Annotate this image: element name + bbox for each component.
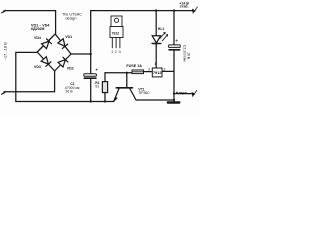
chassis ground bar — [168, 101, 180, 103]
resistor R1 — [102, 73, 107, 103]
emitter with arrow — [114, 89, 119, 102]
wire bridge minus: L vertex left then down — [16, 52, 37, 101]
wire base line from R1 top to regulator — [105, 72, 132, 74]
wire top plus rail — [91, 10, 194, 12]
fuse FU1 — [132, 70, 144, 74]
LED light arrows — [160, 32, 168, 40]
label The UTSAC design — [62, 12, 82, 20]
svg-text:VD4: VD4 — [34, 36, 41, 40]
svg-text:2: 2 — [148, 68, 150, 72]
wire plus riser x=90.8 up to top rail — [90, 11, 92, 54]
svg-text:VD1: VD1 — [65, 35, 72, 39]
capacitor C1 — [84, 54, 97, 103]
svg-text:VD2: VD2 — [67, 66, 74, 70]
wire bridge edge B-R — [55, 54, 71, 71]
svg-text:51: 51 — [95, 84, 99, 88]
svg-text:стаб.: стаб. — [180, 5, 189, 9]
svg-text:3: 3 — [119, 50, 121, 54]
terminal arrow +14V (top right) — [192, 7, 197, 13]
svg-text:design: design — [66, 16, 77, 20]
diode VD3 (on L-B edge, pointing to B) — [41, 57, 51, 67]
label korp — [176, 92, 178, 94]
wire bridge plus: R vertex to C1 node — [71, 53, 91, 55]
svg-text:2: 2 — [115, 50, 117, 54]
diode VD1 (on T-R edge, pointing to R) — [58, 39, 68, 49]
terminal arrow korp — [192, 90, 197, 96]
regulator U1 7912 box — [152, 68, 162, 77]
svg-text:26 В: 26 В — [65, 89, 73, 93]
svg-text:7912: 7912 — [153, 70, 162, 75]
terminal arrow AC input 1 (top-left) — [1, 10, 5, 13]
node LED on top rail — [155, 9, 157, 11]
svg-text:HL1: HL1 — [158, 27, 165, 31]
wire pin3 to output vertical — [162, 70, 174, 72]
wire bridge edge L-T — [37, 34, 55, 52]
label VD1-VD4 type — [31, 24, 50, 32]
node C2 on top rail — [173, 9, 175, 11]
svg-text:КД202М: КД202М — [31, 27, 44, 31]
node base junction — [126, 72, 128, 74]
wire bridge edge L-B — [37, 52, 54, 71]
wire AC2: arrow to bridge bottom vertex — [4, 71, 55, 92]
svg-text:16 В: 16 В — [187, 52, 191, 60]
node collector/output junction — [173, 99, 175, 101]
diode VD2 (on B-R edge, pointing to R) — [58, 57, 68, 67]
svg-text:7912: 7912 — [112, 31, 120, 35]
diode VD4 (on L-T edge, pointing to T) — [42, 39, 52, 49]
svg-text:FUSE 1A: FUSE 1A — [126, 64, 142, 68]
wire AC1 top: arrow to bridge top corner — [4, 11, 56, 34]
wire output common to korp terminal — [174, 93, 193, 95]
TO-220 package drawing — [110, 16, 123, 48]
capacitor C2 — [169, 11, 181, 103]
svg-text:VD3: VD3 — [34, 65, 41, 69]
svg-text:+: + — [175, 39, 178, 45]
transistor VT1 TIP36C — [113, 73, 174, 102]
label C1 value — [65, 82, 80, 93]
label +14V stab — [179, 1, 189, 8]
wire pin1 (LED cathode to box top) — [155, 45, 157, 68]
label VT1 — [138, 87, 150, 94]
svg-text:TIP36C: TIP36C — [138, 91, 150, 95]
base bar — [116, 87, 132, 89]
node C1 top junction — [90, 53, 92, 55]
base lead — [126, 73, 128, 87]
svg-text:+: + — [95, 68, 98, 74]
terminal arrow AC input 2 (mid-left) — [1, 91, 5, 94]
wire bottom minus rail — [16, 101, 114, 103]
collector — [130, 89, 174, 101]
svg-text:1: 1 — [111, 50, 113, 54]
svg-text:C2 2000мк: C2 2000мк — [182, 45, 186, 62]
svg-text:корп.: корп. — [179, 91, 188, 95]
LED HL1 — [152, 11, 161, 46]
svg-text:~17...18 В: ~17...18 В — [3, 42, 8, 61]
label R1 — [95, 81, 99, 89]
wire bridge edge T-R — [55, 34, 71, 54]
